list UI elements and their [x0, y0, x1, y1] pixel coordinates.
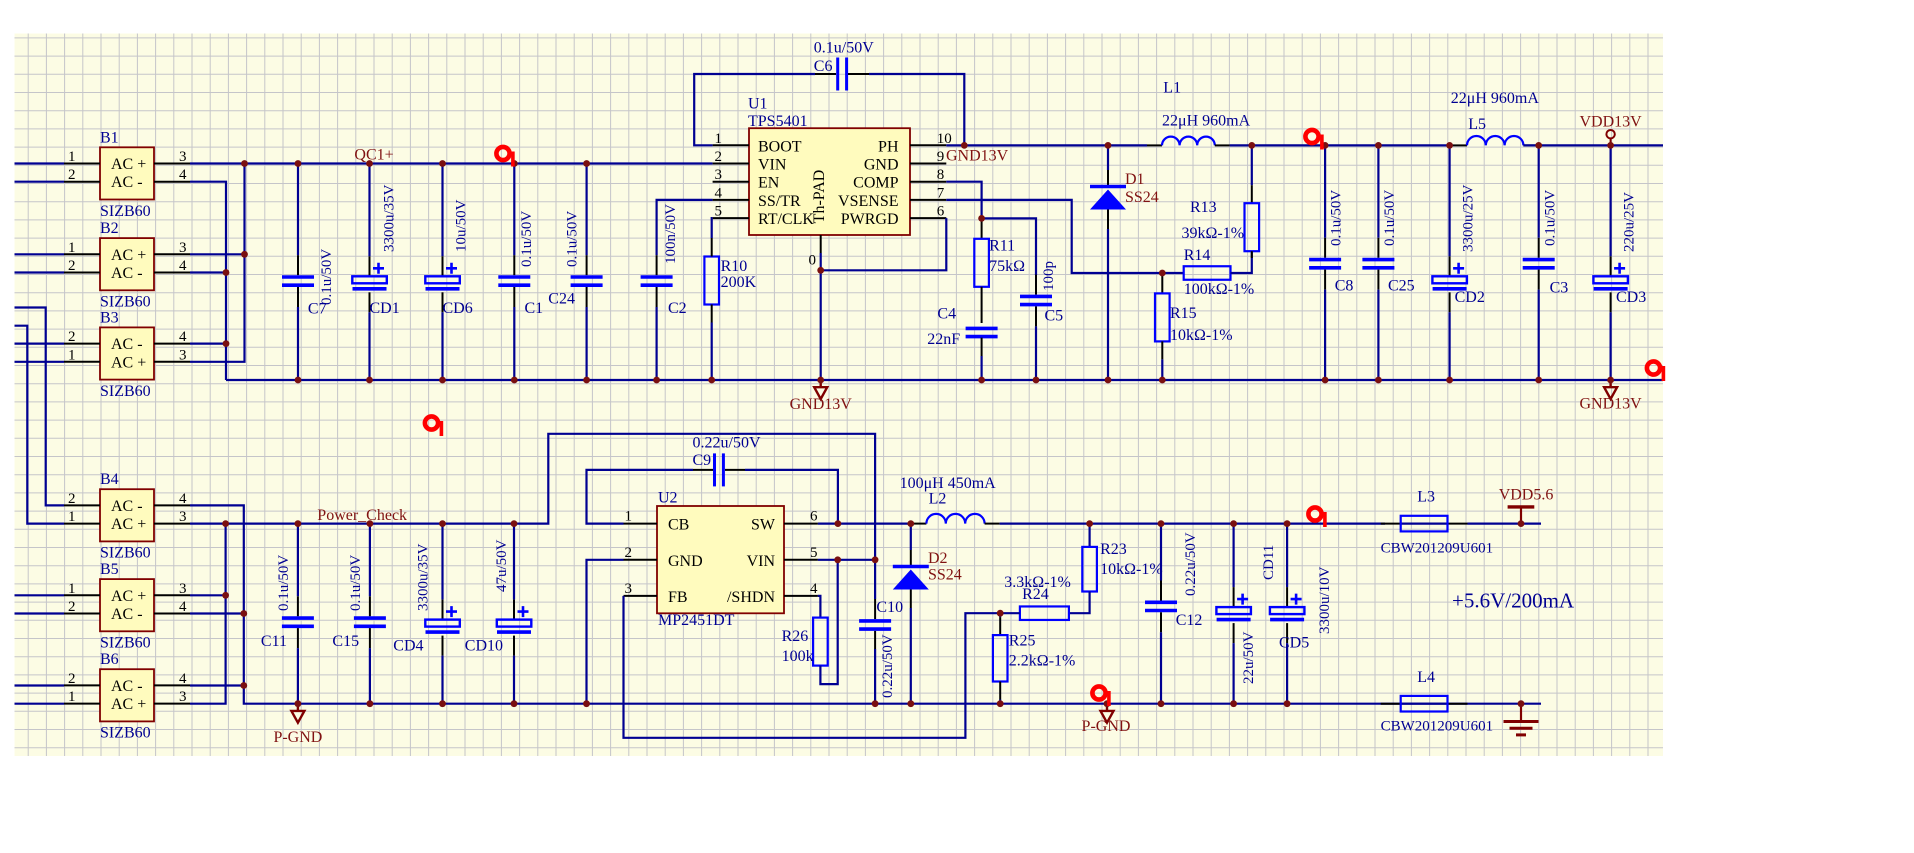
ferrite bead L4: [1381, 696, 1468, 712]
svg-text:R24: R24: [1022, 586, 1049, 603]
svg-text:B1: B1: [100, 129, 119, 146]
svg-text:SS24: SS24: [1125, 189, 1159, 206]
wire B6 pin3 up to Power_Check: [190, 524, 226, 704]
junction B2 pin3: [241, 251, 248, 258]
capacitor CD2: [1432, 145, 1467, 380]
svg-text:COMP: COMP: [853, 175, 898, 192]
svg-text:AC -: AC -: [111, 606, 143, 623]
wire thermal pad to ground bus: [820, 253, 822, 380]
svg-text:BOOT: BOOT: [758, 138, 802, 155]
capacitor C24: [571, 164, 603, 381]
svg-text:VDD5.6: VDD5.6: [1499, 487, 1554, 504]
earth ground symbol: [1504, 704, 1539, 735]
wire B5 pin3: [190, 594, 226, 596]
svg-text:AC -: AC -: [111, 678, 143, 695]
svg-text:GND: GND: [668, 553, 703, 570]
svg-text:75kΩ: 75kΩ: [989, 258, 1025, 275]
svg-text:1: 1: [625, 509, 633, 525]
resistor R24: [1020, 606, 1069, 620]
D1 symbol: [1090, 187, 1126, 210]
resistor R10: [704, 257, 719, 381]
wire B1 pin2 to edge: [15, 181, 65, 183]
svg-text:AC +: AC +: [111, 354, 146, 371]
wire R23 to R24: [1069, 592, 1090, 614]
svg-text:B2: B2: [100, 220, 119, 237]
svg-text:R15: R15: [1170, 305, 1197, 322]
wire QC1+ bus: [190, 162, 713, 164]
svg-text:AC -: AC -: [111, 174, 143, 191]
svg-text:1: 1: [715, 131, 723, 147]
svg-text:R14: R14: [1184, 247, 1211, 264]
svg-text:100μH 450mA: 100μH 450mA: [900, 475, 997, 492]
wire R24 to FB node: [1000, 612, 1020, 614]
junction B3 pin4: [223, 340, 230, 347]
wire B1 pin1 to edge: [15, 162, 65, 164]
svg-text:5: 5: [810, 545, 818, 561]
junction dots bottom ground bus: [295, 700, 302, 707]
svg-text:R10: R10: [721, 258, 748, 275]
svg-text:SIZB60: SIZB60: [100, 545, 151, 562]
resistor R26: [813, 618, 828, 666]
junction dots Power_Check row: [222, 520, 229, 527]
wire AC- vertical and bottom ground bus: [190, 505, 1541, 703]
svg-text:L4: L4: [1417, 669, 1435, 686]
junction dots PH line: [961, 142, 968, 149]
no-ERC marker middle left: [425, 416, 443, 436]
svg-text:100p: 100p: [1041, 261, 1057, 291]
svg-text:22μH 960mA: 22μH 960mA: [1451, 90, 1540, 107]
svg-text:C2: C2: [668, 300, 687, 317]
svg-text:GND13V: GND13V: [1579, 396, 1642, 413]
wire SW to L2: [818, 522, 912, 524]
wire top-section ground bus: [226, 379, 1663, 381]
wire U2 GND to ground bus: [587, 560, 624, 704]
svg-text:4: 4: [715, 185, 723, 201]
svg-text:0.22u/50V: 0.22u/50V: [1183, 532, 1199, 596]
svg-text:L2: L2: [929, 491, 947, 508]
svg-text:SS/TR: SS/TR: [758, 193, 801, 210]
svg-text:C1: C1: [525, 300, 544, 317]
svg-text:C8: C8: [1335, 278, 1354, 295]
svg-text:CD3: CD3: [1616, 289, 1646, 306]
inductor L5: [1452, 144, 1467, 146]
wire /SHDN to R26: [818, 596, 821, 618]
capacitor CD3: [1593, 145, 1628, 380]
wire B6 pin1 to edge: [15, 703, 65, 705]
svg-text:2: 2: [625, 545, 633, 561]
capacitor C9: [693, 453, 745, 486]
svg-text:L1: L1: [1163, 80, 1181, 97]
svg-text:4: 4: [179, 329, 187, 345]
svg-text:VIN: VIN: [747, 553, 776, 570]
svg-text:CD4: CD4: [393, 638, 423, 655]
svg-text:C4: C4: [937, 306, 956, 323]
no-ERC marker P-GND right: [1092, 686, 1110, 706]
svg-text:CD10: CD10: [465, 638, 503, 655]
wire B6 pin2 to edge: [15, 684, 65, 686]
power port VDD13V: [1606, 130, 1614, 145]
svg-text:0.1u/50V: 0.1u/50V: [519, 211, 535, 267]
svg-text:SIZB60: SIZB60: [100, 725, 151, 742]
svg-text:TPS5401: TPS5401: [748, 113, 808, 130]
svg-text:4: 4: [179, 491, 187, 507]
capacitor CD4: [425, 524, 460, 704]
inductor L1: [1147, 144, 1162, 146]
svg-text:0.1u/50V: 0.1u/50V: [565, 211, 581, 267]
diode D2 SS24: [893, 524, 929, 704]
wire pins3 vertical B1-B3: [190, 164, 245, 362]
svg-text:R11: R11: [989, 238, 1015, 255]
svg-text:R13: R13: [1190, 199, 1217, 216]
wire B3 pin4: [190, 343, 226, 345]
svg-text:0.22u/50V: 0.22u/50V: [880, 634, 896, 698]
connector B1: [64, 129, 190, 220]
capacitor CD6: [425, 164, 460, 381]
svg-text:0.1u/50V: 0.1u/50V: [1543, 190, 1559, 246]
wire RT/CLK to R10: [711, 218, 714, 238]
svg-text:6: 6: [810, 509, 818, 525]
capacitor C1: [498, 164, 530, 381]
svg-text:FB: FB: [668, 589, 688, 606]
wire B2 pin1 to edge: [15, 253, 65, 255]
wire R14 to R13: [1231, 251, 1252, 273]
wire B2 pin4: [190, 271, 226, 273]
resistor R23: [1082, 547, 1097, 592]
junction B2 pin4: [223, 269, 230, 276]
svg-text:CB: CB: [668, 517, 689, 534]
diode D1 SS24: [1090, 145, 1126, 380]
svg-text:R25: R25: [1009, 633, 1036, 650]
svg-text:Power_Check: Power_Check: [317, 507, 407, 524]
wire edge to B4 pin1 (AC+): [15, 326, 65, 524]
svg-text:100n/50V: 100n/50V: [663, 204, 679, 264]
connector B5: [64, 561, 190, 652]
wire Power_Check bus to VIN: [190, 434, 875, 560]
svg-text:0.1u/50V: 0.1u/50V: [348, 555, 364, 611]
capacitor CD1: [352, 164, 387, 381]
svg-text:+5.6V/200mA: +5.6V/200mA: [1452, 589, 1575, 613]
ground symbol GND13V right: [1604, 380, 1617, 399]
svg-text:SIZB60: SIZB60: [100, 203, 151, 220]
svg-text:QC1+: QC1+: [354, 147, 393, 164]
svg-text:CBW201209U601: CBW201209U601: [1381, 719, 1494, 735]
svg-text:PWRGD: PWRGD: [841, 211, 899, 228]
svg-text:C11: C11: [261, 633, 287, 650]
svg-text:SIZB60: SIZB60: [100, 294, 151, 311]
svg-text:C9: C9: [693, 452, 712, 469]
R26 leads and loop to VIN: [820, 560, 837, 684]
resistor R14: [1184, 266, 1231, 280]
svg-text:6: 6: [937, 204, 945, 220]
wire edge to B4 pin2 (AC-): [15, 308, 65, 506]
D2 symbol: [893, 567, 929, 590]
ground symbol GND13V under U1: [814, 380, 827, 399]
svg-text:3300u/25V: 3300u/25V: [1461, 184, 1477, 252]
schematic sheet background: [15, 34, 1664, 757]
svg-text:P-GND: P-GND: [273, 729, 322, 746]
capacitor CD5: [1270, 524, 1305, 704]
svg-text:Th-PAD: Th-PAD: [811, 170, 828, 224]
no-ERC marker right edge: [1647, 361, 1665, 381]
svg-text:4: 4: [179, 167, 187, 183]
svg-text:0: 0: [809, 253, 817, 269]
svg-text:100kΩ-1%: 100kΩ-1%: [1184, 281, 1255, 298]
svg-text:U1: U1: [748, 96, 768, 113]
wire PWRGD to thermal pad net: [821, 218, 947, 270]
svg-text:C24: C24: [548, 291, 575, 308]
wire pins4 vertical B1-B3: [190, 182, 226, 380]
wire BOOT to C6: [694, 74, 815, 145]
svg-text:2: 2: [715, 149, 723, 165]
svg-text:L3: L3: [1417, 489, 1435, 506]
wire B3 pin1 to edge: [15, 361, 65, 363]
svg-text:3: 3: [179, 149, 187, 165]
svg-text:1: 1: [68, 347, 76, 363]
svg-text:39kΩ-1%: 39kΩ-1%: [1182, 225, 1245, 242]
junction B5 pin4: [240, 610, 247, 617]
svg-text:3: 3: [179, 240, 187, 256]
svg-text:1: 1: [68, 581, 76, 597]
svg-text:SIZB60: SIZB60: [100, 383, 151, 400]
capacitor C7: [282, 164, 314, 381]
resistor R25: [993, 613, 1008, 704]
capacitor CD11: [1216, 524, 1251, 704]
ground symbol P-GND left: [291, 704, 304, 723]
capacitor C2: [641, 255, 673, 380]
svg-text:SS24: SS24: [928, 567, 962, 584]
capacitor C3: [1523, 145, 1555, 380]
svg-text:22μH 960mA: 22μH 960mA: [1162, 113, 1251, 130]
svg-text:0.1u/50V: 0.1u/50V: [814, 40, 874, 57]
junction thermal pad net: [817, 267, 824, 274]
wire B3 pin2 to edge: [15, 343, 65, 345]
wire L1 to L5: [1230, 144, 1452, 146]
capacitor C8: [1309, 145, 1341, 380]
svg-text:C7: C7: [308, 301, 327, 318]
wire B5 pin1 to edge: [15, 594, 65, 596]
svg-text:PH: PH: [878, 138, 899, 155]
wire COMP down: [946, 182, 981, 219]
connector B2: [64, 220, 190, 311]
svg-text:C10: C10: [876, 599, 903, 616]
R10 top lead: [711, 238, 713, 257]
svg-text:2: 2: [68, 599, 76, 615]
svg-text:D2: D2: [928, 550, 948, 567]
svg-text:AC +: AC +: [111, 156, 146, 173]
svg-text:B4: B4: [100, 471, 119, 488]
connector B3: [64, 309, 190, 400]
svg-text:EN: EN: [758, 175, 780, 192]
svg-text:C12: C12: [1176, 612, 1203, 629]
svg-text:C6: C6: [814, 58, 833, 75]
junction dots VIN row: [834, 556, 841, 563]
svg-text:1: 1: [68, 240, 76, 256]
svg-text:VSENSE: VSENSE: [838, 193, 898, 210]
ground symbol P-GND right: [1101, 704, 1114, 723]
wire B2 pin2 to edge: [15, 271, 65, 273]
op-amp U1 TPS5401: [713, 96, 952, 269]
wire CB to C9: [587, 470, 694, 524]
svg-text:C25: C25: [1388, 278, 1415, 295]
svg-text:GND13V: GND13V: [946, 148, 1009, 165]
svg-text:3: 3: [179, 509, 187, 525]
resistor R11: [974, 218, 989, 286]
wire B5 pin2 to edge: [15, 612, 65, 614]
wire COMP to C5: [982, 218, 1036, 275]
svg-text:1: 1: [68, 689, 76, 705]
svg-text:3: 3: [625, 581, 633, 597]
wire VIN feed to C10: [874, 560, 876, 599]
wire SS/TR to C2: [657, 200, 713, 255]
svg-text:CD1: CD1: [370, 300, 400, 317]
svg-text:L5: L5: [1468, 116, 1486, 133]
svg-text:4: 4: [179, 258, 187, 274]
svg-text:47u/50V: 47u/50V: [494, 539, 510, 592]
wire B2 pin3: [190, 253, 245, 255]
svg-text:3: 3: [179, 347, 187, 363]
no-ERC marker output row: [1308, 507, 1326, 527]
svg-text:2: 2: [68, 671, 76, 687]
svg-text:0.1u/50V: 0.1u/50V: [319, 249, 335, 305]
svg-text:CD6: CD6: [443, 300, 473, 317]
capacitor C6: [815, 58, 869, 91]
capacitor C4: [966, 328, 998, 336]
capacitor C5: [1020, 275, 1052, 380]
svg-text:22nF: 22nF: [927, 331, 960, 348]
svg-text:9: 9: [937, 149, 945, 165]
svg-text:2: 2: [68, 167, 76, 183]
svg-text:1: 1: [68, 509, 76, 525]
ferrite bead L3: [1381, 516, 1468, 532]
wire C9 to SW: [745, 470, 838, 524]
svg-text:AC +: AC +: [111, 696, 146, 713]
svg-text:1: 1: [68, 149, 76, 165]
wire PH to L1: [946, 144, 1147, 146]
svg-text:AC -: AC -: [111, 498, 143, 515]
connector B4: [64, 471, 190, 562]
svg-text:3: 3: [179, 581, 187, 597]
svg-text:P-GND: P-GND: [1082, 718, 1131, 735]
svg-text:B5: B5: [100, 561, 119, 578]
svg-text:C15: C15: [332, 633, 359, 650]
svg-text:CBW201209U601: CBW201209U601: [1381, 541, 1494, 557]
svg-text:SIZB60: SIZB60: [100, 635, 151, 652]
capacitor C25: [1362, 145, 1394, 380]
svg-text:VDD13V: VDD13V: [1579, 113, 1642, 130]
capacitor CD10: [497, 524, 532, 704]
junction B5 pin3: [222, 592, 229, 599]
svg-text:2: 2: [68, 258, 76, 274]
wire C6 to PH: [869, 74, 964, 145]
svg-text:0.1u/50V: 0.1u/50V: [276, 555, 292, 611]
U1 pin 0 (thermal pad) stub: [820, 235, 822, 253]
svg-text:4: 4: [810, 581, 818, 597]
svg-text:22u/50V: 22u/50V: [1241, 631, 1257, 684]
svg-text:3300u/10V: 3300u/10V: [1317, 566, 1333, 634]
wire output to R23: [1088, 524, 1090, 547]
junction dots top-section ground bus: [295, 377, 302, 384]
wire R11 to C4: [981, 287, 983, 323]
svg-text:10kΩ-1%: 10kΩ-1%: [1100, 561, 1163, 578]
resistor R15: [1155, 273, 1170, 380]
capacitor C10: [874, 599, 876, 619]
svg-text:2: 2: [68, 491, 76, 507]
junction R15 tap: [1159, 270, 1166, 277]
svg-text:CD11: CD11: [1261, 545, 1277, 580]
inductor L2: [911, 523, 926, 525]
wire B5 pin4: [190, 612, 244, 614]
no-ERC marker near C8: [1305, 130, 1323, 150]
svg-text:AC -: AC -: [111, 265, 143, 282]
wire L3 to VDD5.6: [1468, 522, 1542, 524]
capacitor C12: [1145, 524, 1177, 704]
svg-text:220u/25V: 220u/25V: [1622, 192, 1638, 252]
svg-text:CD5: CD5: [1279, 635, 1309, 652]
svg-text:10kΩ-1%: 10kΩ-1%: [1170, 327, 1233, 344]
svg-text:AC +: AC +: [111, 516, 146, 533]
svg-text:RT/CLK: RT/CLK: [758, 211, 814, 228]
svg-text:0.1u/50V: 0.1u/50V: [1329, 190, 1345, 246]
capacitor C15: [354, 524, 386, 704]
svg-text:3: 3: [179, 689, 187, 705]
power port VDD5.6: [1508, 507, 1535, 524]
junction COMP node: [978, 215, 985, 222]
svg-text:R26: R26: [782, 628, 809, 645]
svg-text:SW: SW: [751, 517, 776, 534]
connector B6: [64, 651, 190, 742]
svg-text:D1: D1: [1125, 171, 1145, 188]
svg-text:4: 4: [179, 671, 187, 687]
svg-text:3300u/35V: 3300u/35V: [415, 543, 431, 611]
svg-text:C3: C3: [1550, 280, 1569, 297]
svg-text:MP2451DT: MP2451DT: [658, 612, 735, 629]
svg-text:5: 5: [715, 204, 723, 220]
wire L5 to VDD13V and edge: [1523, 144, 1663, 146]
wire VIN pin: [818, 559, 875, 561]
svg-text:2: 2: [68, 329, 76, 345]
wire VSENSE to R14: [946, 200, 1183, 273]
svg-text:B6: B6: [100, 651, 119, 668]
svg-text:VIN: VIN: [758, 157, 787, 174]
junction dots SW/output row: [835, 520, 842, 527]
svg-text:100k: 100k: [782, 648, 814, 665]
junction B6 pin4: [240, 682, 247, 689]
svg-text:AC +: AC +: [111, 247, 146, 264]
svg-text:200K: 200K: [721, 274, 757, 291]
resistor R13: [1245, 145, 1260, 251]
svg-text:3: 3: [715, 167, 723, 183]
svg-text:8: 8: [937, 167, 945, 183]
svg-text:7: 7: [937, 185, 945, 201]
wire FB to divider: [624, 596, 1001, 738]
junction dots top bus: [241, 160, 248, 167]
svg-text:10u/50V: 10u/50V: [453, 199, 469, 252]
svg-text:/SHDN: /SHDN: [727, 589, 775, 606]
svg-text:R23: R23: [1100, 541, 1127, 558]
junction FB node: [997, 610, 1004, 617]
svg-text:0.1u/50V: 0.1u/50V: [1382, 190, 1398, 246]
svg-text:2.2kΩ-1%: 2.2kΩ-1%: [1009, 653, 1076, 670]
op-amp U2 MP2451DT: [624, 490, 819, 630]
capacitor C11: [282, 524, 314, 704]
svg-text:4: 4: [179, 599, 187, 615]
svg-text:AC +: AC +: [111, 588, 146, 605]
svg-text:U2: U2: [658, 490, 678, 507]
svg-text:C5: C5: [1045, 307, 1064, 324]
svg-text:CD2: CD2: [1455, 289, 1485, 306]
no-ERC marker near C1: [496, 147, 514, 167]
svg-text:B3: B3: [100, 309, 119, 326]
